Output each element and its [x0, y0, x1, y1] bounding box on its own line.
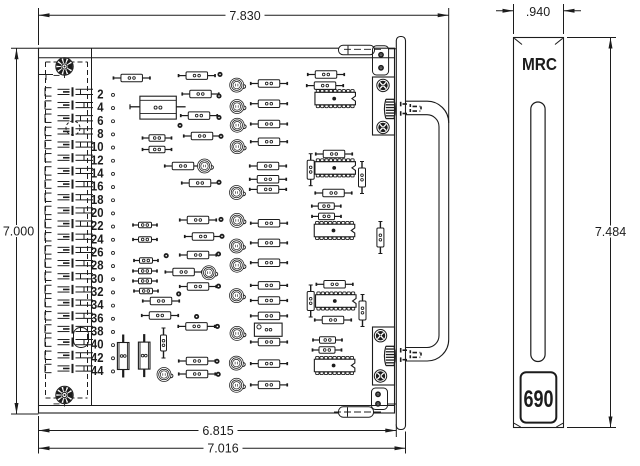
svg-text:7.484: 7.484 — [595, 225, 626, 239]
svg-text:.940: .940 — [526, 5, 550, 19]
svg-text:7.830: 7.830 — [229, 9, 260, 23]
svg-text:6.815: 6.815 — [202, 424, 233, 438]
svg-text:690: 690 — [523, 386, 553, 412]
svg-text:7.016: 7.016 — [207, 442, 238, 456]
svg-text:7.000: 7.000 — [3, 225, 34, 239]
svg-text:44: 44 — [91, 363, 104, 378]
svg-text:MRC: MRC — [522, 55, 557, 74]
